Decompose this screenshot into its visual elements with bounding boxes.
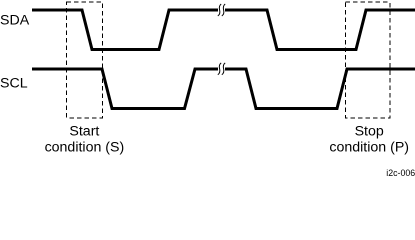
stop condition dashed box — [346, 2, 390, 118]
svg-text:SDA: SDA — [0, 12, 30, 28]
svg-text:condition (P): condition (P) — [329, 140, 409, 156]
svg-text:Stop: Stop — [355, 123, 384, 139]
SCL break squiggle right — [222, 63, 225, 75]
SCL waveform right part — [225, 69, 415, 109]
svg-text:SCL: SCL — [0, 76, 28, 92]
SDA waveform right part — [225, 10, 415, 50]
svg-text:Start: Start — [69, 123, 99, 139]
svg-text:condition (S): condition (S) — [45, 140, 125, 156]
SDA break squiggle left — [218, 4, 221, 16]
SCL waveform left part — [32, 69, 218, 109]
SDA break squiggle right — [222, 4, 225, 16]
start condition dashed box — [67, 2, 103, 118]
svg-text:i2c-006: i2c-006 — [386, 168, 415, 177]
SCL break squiggle left — [218, 63, 221, 75]
SDA waveform left part — [32, 10, 218, 50]
